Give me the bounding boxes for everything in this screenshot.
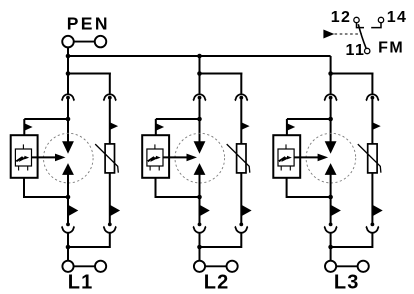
lightning bolt in trigger box (L2): [148, 157, 157, 161]
sub-bus wire (L1): [67, 73, 111, 75]
inner box stub bottom right (L2): [158, 166, 160, 171]
wire top connector to varistor (L1): [109, 98, 111, 145]
wire sub-bus down right branch (L2): [240, 73, 242, 94]
inner box stub top (L3): [285, 144, 287, 149]
terminal circles L1: [62, 261, 73, 272]
thermal-disconnect flag on trigger wire (L3): [287, 123, 295, 131]
varistor diagonal stroke (L3): [358, 144, 381, 173]
FM switch lever from 11: [358, 24, 366, 48]
trigger circuit outer box (L2): [142, 135, 169, 178]
wire bus to sub-bus (L1): [67, 56, 69, 75]
wire between L2 terminals: [205, 265, 226, 267]
wire sub-bus down right branch (L3): [371, 73, 373, 94]
wire spark gap to lower junction (L2): [199, 174, 201, 198]
junction trigger tap upper (L3): [328, 117, 333, 122]
trigger arrow to spark gap (L3): [294, 156, 319, 158]
thermal-disconnect flag on trigger wire (L1): [24, 123, 32, 131]
trigger circuit outer box (L3): [273, 135, 300, 178]
plug-in disconnect, top right (L2): [235, 94, 248, 100]
plug-in disconnect, bottom left (L3): [329, 223, 333, 227]
svg-text:12: 12: [331, 9, 352, 26]
spark gap upper electrode (L2): [194, 141, 206, 154]
thermal-disconnect flag above varistor (L3): [372, 122, 380, 130]
FM fixed contact 12 bracket: [357, 23, 365, 28]
junction sub-bus (L2): [197, 71, 202, 76]
wire sub-bus down left branch (L1): [67, 74, 69, 94]
thermal-disconnect flag lower right (L3): [372, 205, 382, 217]
FM actuator dashed link: [335, 33, 363, 35]
inner box stub bottom left (L1): [18, 166, 20, 171]
FM contact 12 circle: [354, 17, 359, 22]
wire top connector to spark gap (L3): [330, 98, 332, 143]
wire varistor down (L3): [371, 173, 373, 225]
wire bottom right connector to junction (L3): [331, 233, 373, 247]
junction PEN bus / L1 branch: [66, 54, 71, 59]
FM fixed contact 14 bracket: [371, 23, 381, 28]
plug-in disconnect, top right (L1): [103, 94, 116, 100]
triggered spark gap dashed circle (L2): [175, 133, 225, 183]
thermal-disconnect flag lower left (L3): [331, 205, 341, 217]
svg-text:14: 14: [387, 9, 408, 26]
terminal circles L2: [194, 261, 205, 272]
junction bottom (L2): [197, 245, 202, 250]
wire bottom right connector to junction (L1): [68, 233, 110, 247]
junction PEN bus / L2 branch: [197, 54, 202, 59]
wire varistor down (L2): [240, 173, 242, 225]
thermal-disconnect flag lower right (L1): [110, 205, 120, 217]
thermal-disconnect flag above varistor (L1): [110, 122, 118, 130]
wire top connector to spark gap (L1): [67, 98, 69, 143]
svg-text:L1: L1: [68, 272, 94, 294]
trigger arrow to spark gap (L2): [163, 156, 188, 158]
plug-in disconnect, bottom left (L1): [66, 223, 70, 227]
wire between L1 terminals: [74, 265, 95, 267]
wire spark gap to lower junction (L1): [67, 174, 69, 198]
wire bus tap down (L3): [330, 56, 332, 75]
main PEN bus wire: [67, 55, 331, 57]
svg-text:11: 11: [346, 42, 366, 59]
thermal-disconnect flag lower right (L2): [241, 205, 251, 217]
wire PEN to main bus: [67, 47, 69, 56]
wire bottom left connector down (L1): [67, 233, 69, 261]
wire sub-bus down left branch (L2): [199, 74, 201, 94]
junction trigger tap lower (L2): [197, 195, 202, 200]
wire bottom left connector down (L3): [330, 233, 332, 261]
wire spark gap branch down (L3): [330, 197, 332, 225]
PEN terminal circles: [62, 36, 74, 48]
wire top connector to spark gap (L2): [199, 98, 201, 143]
trigger circuit inner box (L3): [278, 149, 294, 166]
junction sub-bus (L3): [328, 71, 333, 76]
varistor body (L1): [105, 144, 114, 173]
inner box stub bottom right (L1): [27, 166, 29, 171]
thermal-disconnect flag lower left (L1): [68, 205, 78, 217]
junction trigger tap lower (L3): [328, 195, 333, 200]
triggered spark gap dashed circle (L1): [44, 133, 94, 183]
wire sub-bus down left branch (L3): [330, 74, 332, 94]
FM contact 11 circle: [365, 48, 370, 53]
plug-in disconnect, bottom right (L3): [371, 223, 375, 227]
svg-text:L2: L2: [204, 272, 230, 294]
wire spark gap branch down (L1): [67, 197, 69, 225]
plug-in disconnect, top left (L1): [62, 94, 75, 100]
wire top connector to varistor (L3): [371, 98, 373, 145]
wire trigger tap upper (L2): [156, 118, 200, 120]
lightning bolt in trigger box (L3): [279, 157, 288, 161]
thermal-disconnect flag lower left (L2): [200, 205, 210, 217]
junction sub-bus (L1): [66, 71, 71, 76]
thermal-disconnect flag above varistor (L2): [241, 122, 249, 130]
wire spark gap branch down (L2): [199, 197, 201, 225]
wire trigger tap upper (L3): [287, 118, 331, 120]
sub-bus wire (L2): [199, 73, 243, 75]
svg-text:FM: FM: [378, 40, 404, 57]
plug-in disconnect, bottom left (L2): [198, 223, 202, 227]
spark gap lower electrode (L2): [194, 163, 206, 175]
wire sub-bus down right branch (L1): [109, 73, 111, 94]
plug-in disconnect, top left (L2): [193, 94, 206, 100]
varistor body (L3): [368, 144, 377, 173]
wire trigger tap lower (L2): [156, 178, 200, 198]
sub-bus wire (L3): [330, 73, 374, 75]
junction bottom (L1): [66, 245, 71, 250]
wire bottom right connector to junction (L2): [200, 233, 242, 247]
varistor diagonal stroke (L2): [227, 144, 250, 173]
junction bottom (L3): [328, 245, 333, 250]
spark gap lower electrode (L1): [62, 163, 74, 175]
svg-text:PEN: PEN: [67, 13, 110, 33]
wire trigger tap upper (L1): [24, 118, 68, 120]
triggered spark gap dashed circle (L3): [306, 133, 356, 183]
wire bottom left connector down (L2): [199, 233, 201, 261]
thermal-disconnect flag on trigger wire (L2): [156, 123, 164, 131]
wire top connector to varistor (L2): [240, 98, 242, 145]
wire between PEN terminals: [74, 41, 95, 43]
varistor diagonal stroke (L1): [95, 144, 118, 173]
spark gap upper electrode (L1): [62, 141, 74, 154]
trigger arrow to spark gap (L1): [32, 156, 57, 158]
plug-in disconnect, bottom right (L2): [239, 223, 243, 227]
plug-in disconnect, bottom right (L1): [108, 223, 112, 227]
inner box stub bottom right (L3): [289, 166, 291, 171]
wire between L3 terminals: [336, 265, 357, 267]
plug-in disconnect, top left (L3): [324, 94, 337, 100]
trigger circuit outer box (L1): [11, 135, 38, 178]
FM actuator arrow: [323, 30, 334, 39]
plug-in disconnect, top right (L3): [366, 94, 379, 100]
lightning bolt in trigger box (L1): [16, 157, 25, 161]
varistor body (L2): [237, 144, 246, 173]
spark gap upper electrode (L3): [325, 141, 337, 154]
inner box stub top (L1): [22, 144, 24, 149]
spark gap lower electrode (L3): [325, 163, 337, 175]
wire spark gap to lower junction (L3): [330, 174, 332, 198]
inner box stub bottom left (L3): [280, 166, 282, 171]
wire varistor down (L1): [109, 173, 111, 225]
junction trigger tap upper (L1): [66, 117, 71, 122]
inner box stub bottom left (L2): [149, 166, 151, 171]
wire trigger tap lower (L3): [287, 178, 331, 198]
svg-text:L3: L3: [334, 272, 360, 294]
junction trigger tap upper (L2): [197, 117, 202, 122]
trigger circuit inner box (L2): [147, 149, 163, 166]
FM contact 14 circle: [378, 17, 383, 22]
wire trigger tap lower (L1): [24, 178, 68, 198]
inner box stub top (L2): [154, 144, 156, 149]
wire bus tap down (L2): [199, 56, 201, 75]
terminal circles L3: [325, 261, 336, 272]
junction trigger tap lower (L1): [66, 195, 71, 200]
trigger circuit inner box (L1): [15, 149, 31, 166]
